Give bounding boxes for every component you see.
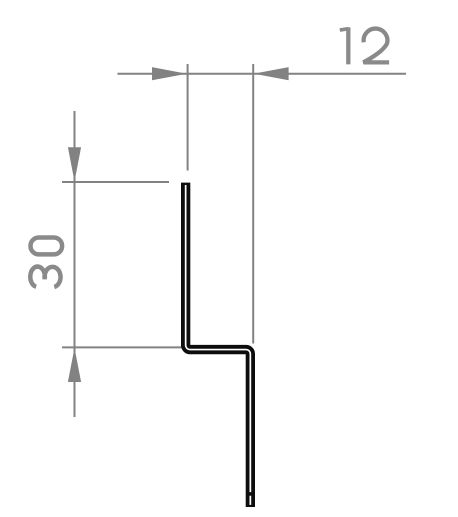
profile inner white core lower segment: [249, 496, 251, 505]
profile inner white core: [186, 185, 251, 492]
arrowhead dim 30 bottom: [68, 348, 81, 382]
arrowhead dim 30 top: [68, 147, 81, 181]
dimension text 12, digit 1 stem: [346, 27, 350, 64]
extension line left of dim 12: [187, 64, 189, 171]
extension line right of dim 12: [252, 64, 254, 344]
extension line top of dim 30: [62, 181, 169, 183]
dimension text 30, digit 3 (rotated): [30, 267, 60, 287]
arrowhead dim 12 left: [152, 67, 187, 80]
dimension text 30, digit 0 (rotated): [31, 238, 63, 255]
extension line bottom of dim 30: [62, 346, 191, 348]
dimension line 30 (vertical): [74, 111, 76, 417]
dimension text 12, digit 1 flag: [340, 29, 349, 30]
arrowhead dim 12 right: [254, 67, 289, 80]
dimension line 12 (horizontal): [118, 73, 407, 75]
dimension text 12, digit 2: [363, 29, 389, 63]
profile outline (sheet metal cross-section, black): [186, 183, 251, 507]
